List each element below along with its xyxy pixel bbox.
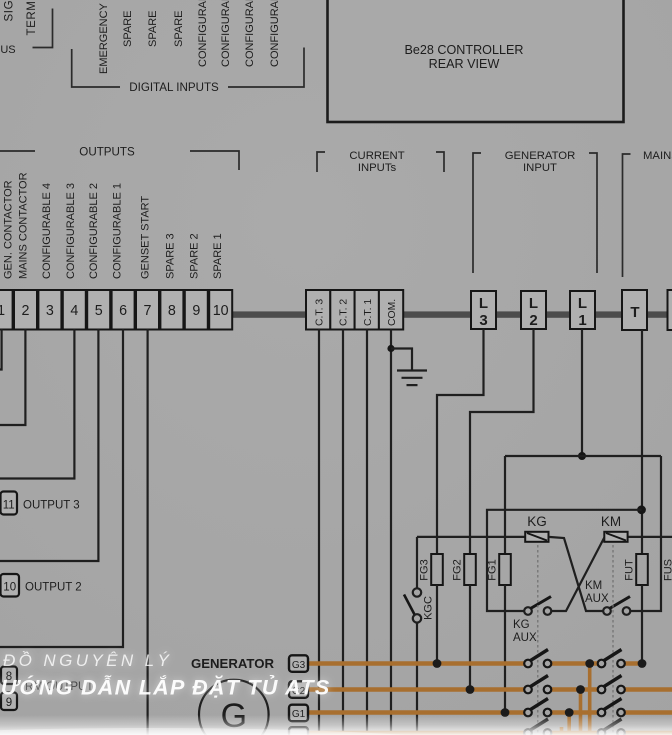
KM main contact row 2 (598, 676, 625, 694)
phase bus row 2 (orange) (308, 687, 672, 692)
Be28 controller box (rear view) (328, 0, 624, 122)
svg-text:SPARE 3: SPARE 3 (165, 233, 177, 279)
auxiliary contact KG AUX (513, 597, 551, 645)
svg-text:EMERGENCY: EMERGENCY (98, 2, 110, 74)
svg-text:FG3: FG3 (419, 559, 431, 580)
svg-text:CONFIGURABLE: CONFIGURABLE (244, 0, 256, 67)
interlock wire KG coil to KM aux (549, 537, 603, 611)
wire fuse FUT to mains bus (641, 585, 643, 664)
mains terminal (cut at right edge) (668, 290, 672, 330)
RMD output terminal 9 (1, 693, 17, 711)
KG main contact row 4 (524, 719, 551, 735)
watermark line 2 (0, 674, 330, 700)
svg-text:TERMINAL: TERMINAL (26, 0, 38, 36)
generator input terminal L2 (521, 291, 546, 329)
watermark line 1 (3, 651, 172, 670)
junction dot load tap 3 (565, 708, 574, 717)
svg-text:KG: KG (513, 619, 530, 631)
output label GENSET START (140, 196, 152, 279)
DIGITAL INPUTS group bracket (72, 48, 304, 95)
svg-text:KG: KG (527, 514, 547, 529)
digital input label CONFIGURABLE 3 (244, 0, 256, 67)
svg-text:MAINS: MAINS (643, 150, 672, 162)
svg-text:8: 8 (168, 303, 176, 319)
output terminal 5 (87, 290, 110, 330)
generator input terminal L3 (471, 291, 496, 329)
svg-text:HƯỚNG DẪN LẮP ĐẶT TỦ ATS: HƯỚNG DẪN LẮP ĐẶT TỦ ATS (0, 674, 330, 700)
output label CONFIGURABLE 4 (41, 183, 53, 279)
output terminal 9 (185, 290, 208, 330)
svg-text:REAR VIEW: REAR VIEW (429, 57, 500, 71)
output terminal 1 (0, 290, 13, 330)
digital input label SPARE 1 (122, 11, 134, 47)
svg-text:CONFIGURABLE 2: CONFIGURABLE 2 (88, 183, 100, 279)
generator terminal G1 (289, 705, 308, 722)
svg-text:SPARE 2: SPARE 2 (189, 233, 201, 279)
phase bus row 4 (orange, bottom edge) (308, 731, 672, 735)
generator terminal G2 (289, 681, 308, 698)
svg-text:ĐỒ NGUYÊN LÝ: ĐỒ NGUYÊN LÝ (3, 651, 172, 670)
output terminal 10 (209, 290, 232, 330)
node L1 junction dot (578, 452, 586, 460)
svg-text:COM.: COM. (387, 299, 398, 326)
GENERATOR INPUT group label and brackets (473, 150, 597, 273)
wire from terminal L3 to fuse FG3 (437, 329, 484, 554)
L1 distribution wire (505, 455, 661, 457)
contactor coil KG (525, 514, 548, 542)
wire from terminal COM. (390, 329, 392, 735)
svg-text:2: 2 (22, 303, 30, 319)
svg-text:5: 5 (95, 303, 103, 319)
KG main contact row 2 (524, 676, 551, 694)
junction dot FUT tap (638, 659, 647, 668)
current input terminal COM. (379, 290, 403, 330)
output terminal 4 (63, 290, 86, 330)
digital input label SIGNAL (cut at top) (4, 0, 16, 22)
KG main contact row 3 (524, 699, 551, 717)
svg-text:KM: KM (585, 580, 602, 592)
svg-text:11: 11 (3, 500, 15, 512)
svg-text:GENERATOR: GENERATOR (191, 656, 275, 671)
svg-text:SPARE: SPARE (173, 11, 185, 47)
current input terminal C.T. 1 (355, 290, 379, 330)
digital input label CONFIGURABLE 4 (269, 0, 281, 67)
current input terminal C.T. 3 (306, 290, 330, 330)
MAINS INPUT group label and bracket (cut at right) (623, 150, 672, 277)
mains input terminal T (622, 290, 647, 330)
fuse FUT (624, 554, 648, 585)
output terminal 6 (112, 290, 135, 330)
digital input label TERMINAL (cut at top) (26, 0, 38, 36)
generator G symbol (199, 680, 269, 735)
output label CONFIGURABLE 1 (112, 183, 124, 279)
GENERATOR label (191, 656, 275, 671)
wire branch to fuse FG1 (504, 456, 506, 554)
svg-text:FUS: FUS (663, 559, 672, 581)
svg-text:INPUT: INPUT (523, 162, 557, 174)
junction dot on T wire (637, 505, 646, 514)
CURRENT INPUTs group label and brackets (317, 150, 444, 174)
svg-text:FG2: FG2 (452, 559, 464, 580)
wire fuse FG2 to generator bus (469, 585, 471, 690)
node label BUS (cut at left) (0, 44, 16, 56)
KM main contact row 3 (598, 699, 625, 717)
output terminal 8 (160, 290, 183, 330)
auxiliary contact KM AUX (585, 580, 630, 615)
generator input terminal L1 (570, 291, 595, 329)
output label SPARE 1 (212, 233, 224, 279)
generator terminal G0 (cut at bottom) (289, 727, 308, 735)
digital input label SPARE 2 (147, 11, 159, 47)
svg-text:4: 4 (70, 303, 78, 319)
wire from terminal 7 (147, 329, 149, 735)
svg-text:L: L (529, 295, 538, 312)
fuse FG1 (487, 554, 511, 585)
bracket for bus group (33, 9, 53, 48)
output terminal 2 (14, 290, 37, 330)
svg-text:C.T. 3: C.T. 3 (314, 299, 325, 326)
wire from terminal 4 (0, 329, 74, 479)
svg-text:CONFIGURABLE: CONFIGURABLE (220, 0, 232, 67)
wire KM coil to right edge (627, 536, 672, 538)
svg-text:CONFIGURABLE 4: CONFIGURABLE 4 (41, 183, 53, 279)
svg-text:CURRENT: CURRENT (349, 150, 404, 162)
KG contactor linkage (dashed) (537, 545, 539, 735)
wire fuse FG1 to generator bus (504, 585, 506, 713)
svg-text:C.T. 1: C.T. 1 (363, 299, 374, 326)
svg-text:2: 2 (529, 312, 537, 329)
svg-text:6: 6 (119, 303, 127, 319)
digital input label SPARE 3 (173, 11, 185, 47)
junction dot FG3 tap (433, 659, 442, 668)
phase bus row 3 (orange) (308, 710, 672, 715)
svg-text:FUT: FUT (624, 559, 636, 581)
fuse FUS label (fuse cut at right edge) (663, 559, 672, 581)
wire from terminal C.T.2 (342, 329, 344, 735)
wire from terminal 6 (0, 329, 123, 647)
junction dot load tap 2 (576, 685, 585, 694)
svg-text:SIGNAL: SIGNAL (4, 0, 16, 22)
terminal bus bar (232, 311, 672, 317)
svg-text:KM: KM (601, 514, 621, 529)
digital input label CONFIGURABLE 2 (220, 0, 232, 67)
svg-text:INPUTs: INPUTs (358, 162, 397, 174)
wire fuse FG3 to generator bus (436, 585, 438, 664)
generator terminal G3 (289, 655, 308, 672)
wire from terminal L1 to node (581, 329, 583, 456)
wire from terminal C.T.3 (318, 329, 320, 735)
wire from terminal L2 to fuse FG2 (470, 329, 534, 554)
junction on COM wire (387, 345, 394, 352)
load tap from row 4 (560, 727, 564, 735)
svg-text:MAINS CONTACTOR: MAINS CONTACTOR (18, 172, 30, 279)
svg-text:FG1: FG1 (487, 559, 499, 580)
output label MAINS CONTACTOR (18, 172, 30, 279)
svg-text:7: 7 (144, 303, 152, 319)
svg-text:AUX: AUX (513, 632, 537, 644)
wire from terminal C.T.1 (366, 329, 368, 735)
svg-text:1: 1 (0, 303, 5, 319)
wire from terminal 1 (0, 329, 2, 370)
fuse FG2 (452, 554, 476, 585)
svg-text:3: 3 (46, 303, 54, 319)
output terminal 7 (136, 290, 159, 330)
svg-text:SPARE 1: SPARE 1 (212, 233, 224, 279)
output label GEN. CONTACTOR (3, 180, 15, 279)
wire branch to KM aux contact (630, 456, 661, 611)
svg-text:OUTPUT 2: OUTPUT 2 (25, 582, 82, 594)
output terminal 3 (38, 290, 61, 330)
wire KGC rail to KG coil (417, 536, 525, 538)
svg-text:BUS: BUS (0, 44, 16, 56)
digital input label CONFIGURABLE 1 (197, 0, 209, 67)
svg-text:Be28 CONTROLLER: Be28 CONTROLLER (405, 43, 524, 57)
svg-text:CONFIGURABLE: CONFIGURABLE (269, 0, 281, 67)
coil supply wire (487, 510, 642, 611)
svg-text:T: T (630, 304, 639, 321)
switch KGC (404, 537, 435, 735)
svg-text:AUX: AUX (585, 593, 609, 605)
wire from terminal 2 (0, 329, 25, 425)
KM main contact row 4 (598, 719, 625, 735)
svg-text:9: 9 (192, 303, 200, 319)
digital input label EMERGENCY (98, 2, 110, 74)
svg-text:OUTPUTS: OUTPUTS (79, 146, 135, 159)
KM main contact row 1 (598, 650, 625, 668)
svg-text:SPARE: SPARE (147, 11, 159, 47)
ground symbol (397, 371, 427, 386)
junction dot load tap 1 (585, 659, 594, 668)
svg-text:L: L (479, 295, 488, 312)
output label SPARE 2 (189, 233, 201, 279)
svg-text:3: 3 (479, 312, 487, 329)
svg-text:GENERATOR: GENERATOR (505, 150, 576, 162)
load tap from row 2 (579, 690, 583, 735)
RMD output terminal 8 (1, 667, 93, 694)
current input terminal C.T. 2 (330, 290, 354, 330)
wire from terminal T (641, 330, 643, 554)
svg-text:G3: G3 (292, 660, 306, 671)
generator phase bus row 1 (orange) (308, 661, 642, 666)
svg-text:C.T. 2: C.T. 2 (339, 299, 350, 326)
svg-text:SPARE: SPARE (122, 11, 134, 47)
KM contactor linkage (dashed) (612, 545, 614, 735)
OUTPUTS group label and bracket (0, 146, 239, 171)
junction dot FG1 tap (501, 708, 510, 717)
svg-text:GENSET START: GENSET START (140, 196, 152, 279)
decorative bottom fade (0, 715, 672, 735)
fuse FG3 (419, 554, 443, 585)
load tap from row 3 (567, 713, 571, 735)
svg-text:L: L (578, 295, 587, 312)
junction dot FG2 tap (466, 685, 475, 694)
RMD output terminal 10 (1, 574, 82, 597)
svg-text:CONFIGURABLE: CONFIGURABLE (197, 0, 209, 67)
svg-text:1: 1 (578, 312, 586, 329)
svg-text:KGC: KGC (423, 596, 435, 620)
svg-text:GEN. CONTACTOR: GEN. CONTACTOR (3, 180, 15, 279)
svg-text:CONFIGURABLE 3: CONFIGURABLE 3 (65, 183, 77, 279)
svg-text:CONFIGURABLE 1: CONFIGURABLE 1 (112, 183, 124, 279)
KG main contact row 1 (524, 650, 551, 668)
watermark glow (0, 651, 330, 700)
output label CONFIGURABLE 3 (65, 183, 77, 279)
svg-text:10: 10 (213, 303, 229, 319)
contactor coil KM (601, 514, 628, 542)
svg-text:10: 10 (3, 582, 16, 594)
load tap from row 1 (588, 664, 592, 735)
interlock wire KM coil to KG aux (551, 538, 604, 612)
wire COM to ground (391, 349, 412, 371)
output label CONFIGURABLE 2 (88, 183, 100, 279)
svg-text:DIGITAL INPUTS: DIGITAL INPUTS (129, 81, 219, 94)
RMD output terminal 11 (1, 492, 80, 515)
wire from terminal 5 (0, 329, 98, 561)
svg-text:OUTPUT 3: OUTPUT 3 (23, 500, 80, 512)
output label SPARE 3 (165, 233, 177, 279)
